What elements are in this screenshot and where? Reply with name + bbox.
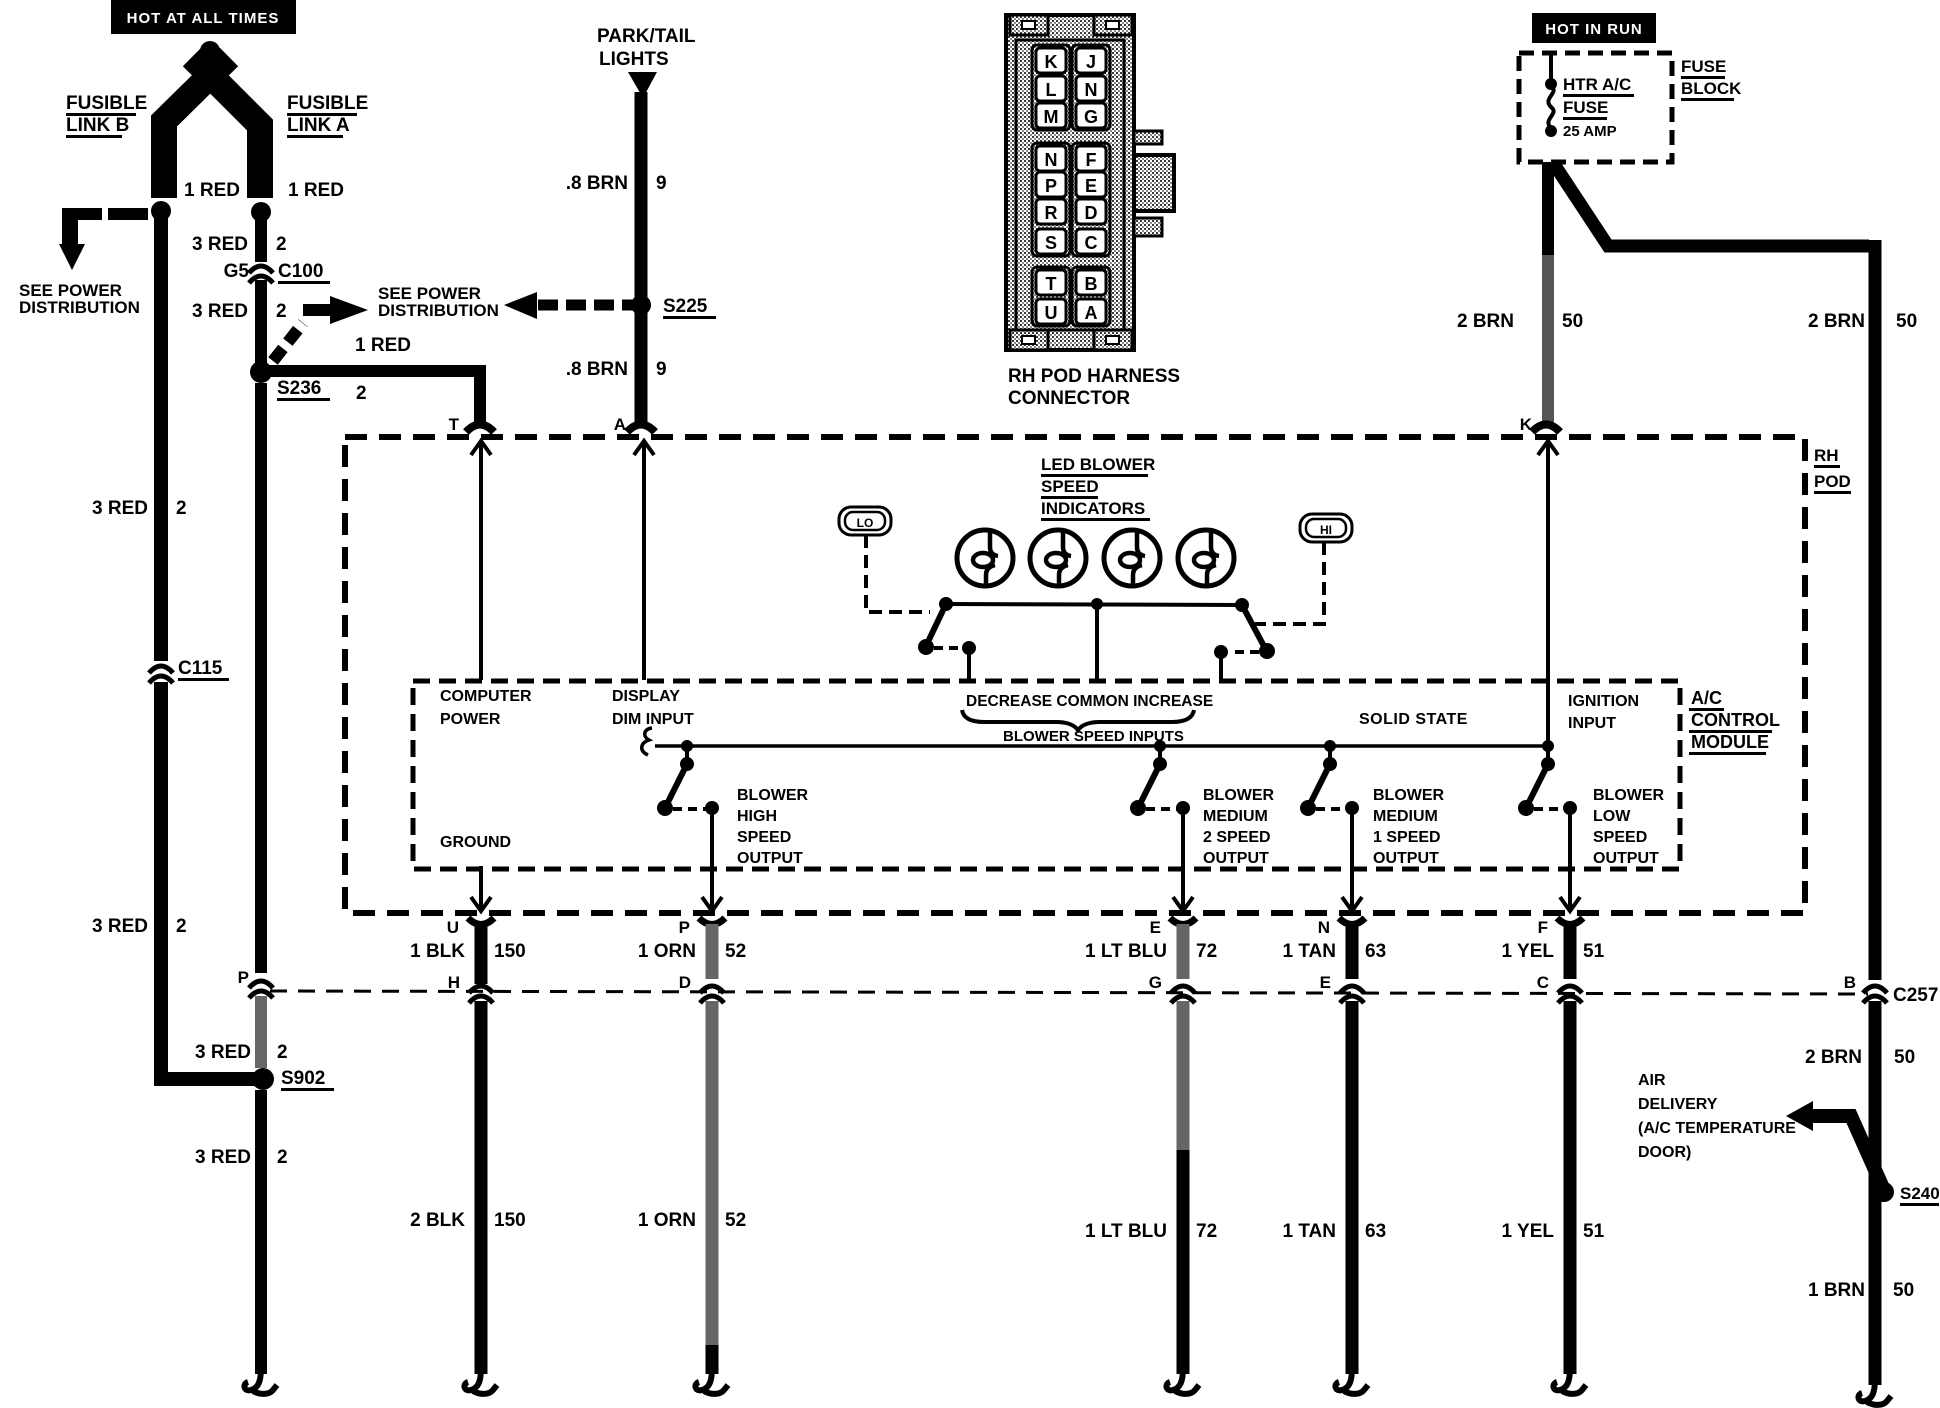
svg-text:S902: S902 — [281, 1068, 325, 1089]
wire label 1 TAN 63 (lower) — [1283, 1221, 1387, 1242]
HI button — [1300, 514, 1352, 542]
svg-text:FUSE: FUSE — [1563, 98, 1608, 117]
wire label 1 ORN 52 — [638, 941, 746, 962]
svg-text:3 RED: 3 RED — [92, 916, 148, 937]
hook end (1 LT BLU wire) — [1166, 1368, 1199, 1394]
svg-text:T: T — [449, 415, 460, 434]
blower low speed switch — [1518, 740, 1577, 816]
svg-text:OUTPUT: OUTPUT — [737, 850, 803, 867]
connector H — [448, 973, 493, 1003]
medium 1 output line — [1342, 808, 1362, 911]
node: hot feed dot — [200, 41, 220, 61]
wire label 1 LT BLU 72 (lower) — [1085, 1221, 1217, 1242]
label PARK/TAIL LIGHTS — [597, 26, 696, 70]
svg-text:1 TAN: 1 TAN — [1283, 1221, 1336, 1242]
svg-text:HIGH: HIGH — [737, 808, 777, 825]
blower medium 1 switch — [1300, 740, 1359, 816]
node: splice dot under link A — [251, 202, 271, 222]
arrow from park/tail lights — [628, 72, 657, 98]
wire: 2 BLK 150 — [475, 1001, 488, 1374]
ground output line — [471, 866, 491, 911]
splice S225 — [631, 295, 716, 319]
svg-text:OUTPUT: OUTPUT — [1203, 850, 1269, 867]
svg-text:.8 BRN: .8 BRN — [566, 359, 628, 380]
wire: corner into S902 — [154, 1072, 262, 1086]
svg-text:POWER: POWER — [440, 711, 501, 728]
svg-text:MEDIUM: MEDIUM — [1203, 808, 1268, 825]
connector C100 / G5 — [224, 261, 330, 284]
low speed output line — [1560, 808, 1580, 911]
svg-text:C: C — [1537, 973, 1549, 992]
svg-text:G: G — [1084, 107, 1098, 127]
wire label 3 RED 2 (gray section) — [195, 1042, 288, 1063]
label RH POD — [1814, 446, 1851, 494]
svg-text:G: G — [1149, 973, 1162, 992]
wire label 1 BLK 150 — [410, 941, 526, 962]
svg-text:GROUND: GROUND — [440, 834, 511, 851]
label SEE POWER DISTRIBUTION (right) — [378, 284, 499, 320]
connector C (C257) — [1537, 973, 1582, 1003]
wire label 1 BRN 50 — [1808, 1280, 1914, 1301]
wire label .8 BRN 9 (lower) — [566, 359, 667, 380]
fusible link B (left leg) — [164, 57, 229, 198]
wire label 1 ORN 52 (lower) — [638, 1210, 746, 1231]
connector D — [679, 973, 724, 1003]
high speed output line — [702, 808, 722, 911]
svg-text:AIR: AIR — [1638, 1072, 1666, 1089]
label SOLID STATE — [1359, 711, 1468, 728]
svg-text:BLOWER: BLOWER — [1203, 787, 1275, 804]
medium 2 output line — [1173, 808, 1193, 911]
label BLOWER SPEED INPUTS — [1003, 728, 1184, 745]
svg-text:C: C — [1085, 233, 1098, 253]
svg-text:K: K — [1520, 415, 1533, 434]
svg-text:A/C: A/C — [1691, 688, 1722, 708]
svg-text:2: 2 — [276, 301, 287, 322]
svg-text:2: 2 — [276, 234, 287, 255]
wire label 2 BRN 50 (right branch) — [1808, 311, 1917, 332]
wire: 3 RED gray section P to S902 — [255, 996, 267, 1068]
svg-text:D: D — [679, 973, 691, 992]
svg-text:2: 2 — [356, 383, 367, 404]
svg-text:HOT IN RUN: HOT IN RUN — [1545, 21, 1643, 38]
dashed branch to see-power-distribution (right) — [273, 310, 331, 361]
svg-text:P: P — [1045, 176, 1057, 196]
svg-text:L: L — [1046, 80, 1057, 100]
wire label 2 BLK 150 — [410, 1210, 526, 1231]
svg-text:1 RED: 1 RED — [355, 335, 411, 356]
svg-text:BLOWER: BLOWER — [737, 787, 809, 804]
svg-text:RH POD HARNESS: RH POD HARNESS — [1008, 366, 1180, 387]
svg-text:FUSE: FUSE — [1681, 57, 1726, 76]
arrow down (see power distribution left) — [59, 244, 85, 270]
svg-text:1 ORN: 1 ORN — [638, 941, 696, 962]
svg-text:1 YEL: 1 YEL — [1502, 941, 1555, 962]
label FUSIBLE LINK A — [287, 93, 368, 138]
svg-text:52: 52 — [725, 1210, 746, 1231]
svg-text:3 RED: 3 RED — [92, 498, 148, 519]
decrease switch (by LO) — [918, 604, 976, 681]
svg-text:E: E — [1150, 918, 1161, 937]
svg-text:S236: S236 — [277, 378, 321, 399]
common line down — [1095, 604, 1099, 681]
splice S240 — [1874, 1182, 1940, 1206]
svg-text:G5: G5 — [224, 261, 250, 282]
svg-text:U: U — [1045, 303, 1058, 323]
svg-text:51: 51 — [1583, 1221, 1605, 1242]
increase switch (by HI) — [1214, 605, 1275, 681]
svg-text:1 BLK: 1 BLK — [410, 941, 465, 962]
blower speed input bus — [655, 744, 1550, 748]
svg-text:D: D — [1085, 203, 1098, 223]
svg-text:S240: S240 — [1900, 1184, 1940, 1203]
wire: 1 BLK 150 — [475, 924, 488, 984]
wire label 3 RED 2 (right, above C100) — [192, 234, 287, 255]
label BLOWER MEDIUM 1 SPEED OUTPUT — [1373, 787, 1445, 867]
label BLOWER MEDIUM 2 SPEED OUTPUT — [1203, 787, 1275, 867]
svg-text:1 SPEED: 1 SPEED — [1373, 829, 1441, 846]
svg-text:POD: POD — [1814, 472, 1851, 491]
fusible link A (right leg) — [192, 57, 260, 198]
power label: HOT AT ALL TIMES box — [111, 0, 296, 34]
wire: 3 RED below S902 — [255, 1090, 267, 1374]
connector B (C257) — [1844, 973, 1887, 1003]
brace under decrease/common/increase — [962, 710, 1194, 730]
wire: 1 LT BLU 72 (gray) — [1177, 924, 1190, 979]
splice S236 — [250, 361, 330, 401]
arrow right (see power distribution right) — [330, 296, 368, 324]
svg-text:C100: C100 — [278, 261, 323, 282]
label BLOWER LOW SPEED OUTPUT — [1593, 787, 1665, 867]
svg-text:S: S — [1045, 233, 1057, 253]
svg-text:S225: S225 — [663, 296, 708, 317]
svg-text:1 ORN: 1 ORN — [638, 1210, 696, 1231]
svg-text:DISPLAY: DISPLAY — [612, 688, 680, 705]
svg-text:N: N — [1085, 80, 1098, 100]
svg-text:P: P — [238, 968, 249, 987]
wire: 1 YEL 51 — [1564, 924, 1577, 979]
svg-text:52: 52 — [725, 941, 746, 962]
svg-text:P: P — [679, 918, 690, 937]
LED indicator 4 — [1178, 530, 1234, 586]
svg-text:DOOR): DOOR) — [1638, 1144, 1691, 1161]
svg-text:T: T — [1046, 274, 1057, 294]
wire label .8 BRN 9 (upper) — [566, 173, 667, 194]
label COMPUTER POWER — [440, 688, 532, 728]
label IGNITION INPUT — [1568, 693, 1639, 732]
wire: .8 BRN down to A — [635, 305, 648, 424]
svg-text:1 TAN: 1 TAN — [1283, 941, 1336, 962]
label RH POD HARNESS CONNECTOR — [1008, 366, 1180, 409]
svg-text:N: N — [1318, 918, 1330, 937]
connector N (RH pod bottom) — [1318, 918, 1365, 937]
svg-text:DISTRIBUTION: DISTRIBUTION — [19, 298, 140, 317]
svg-text:LED BLOWER: LED BLOWER — [1041, 455, 1155, 474]
wire: 1 RED horizontal to T — [261, 365, 486, 424]
connector F (RH pod bottom) — [1538, 918, 1583, 937]
label DISPLAY DIM INPUT — [612, 688, 694, 728]
svg-text:2 SPEED: 2 SPEED — [1203, 829, 1271, 846]
svg-text:PARK/TAIL: PARK/TAIL — [597, 26, 696, 47]
svg-text:C115: C115 — [178, 658, 223, 679]
wire: 2 BRN branch right — [1554, 164, 1882, 980]
svg-text:9: 9 — [656, 173, 667, 194]
connector U (RH pod bottom) — [447, 918, 494, 937]
svg-text:3 RED: 3 RED — [195, 1147, 251, 1168]
air delivery branch arrow — [1786, 1101, 1884, 1190]
svg-text:M: M — [1044, 107, 1059, 127]
svg-text:LINK A: LINK A — [287, 115, 350, 136]
svg-text:B: B — [1085, 274, 1098, 294]
dashed wire from HI — [1255, 542, 1324, 624]
svg-text:SPEED: SPEED — [1593, 829, 1647, 846]
label AIR DELIVERY (A/C TEMPERATURE DOOR) — [1638, 1072, 1796, 1161]
label FUSIBLE LINK B — [66, 93, 147, 138]
svg-text:K: K — [1045, 52, 1058, 72]
svg-text:LINK B: LINK B — [66, 115, 129, 136]
svg-text:3 RED: 3 RED — [195, 1042, 251, 1063]
wire label 2 BRN 50 (left branch) — [1457, 311, 1583, 332]
wire: 1 TAN lower — [1346, 1001, 1359, 1374]
wire: 2 BRN fuse to K — [1542, 162, 1554, 424]
svg-text:2 BRN: 2 BRN — [1805, 1047, 1862, 1068]
blower high speed switch — [657, 740, 719, 816]
svg-text:LOW: LOW — [1593, 808, 1631, 825]
hook end (1 YEL wire) — [1553, 1368, 1586, 1394]
svg-text:150: 150 — [494, 941, 526, 962]
svg-text:.8 BRN: .8 BRN — [566, 173, 628, 194]
RH POD module dashed box — [345, 437, 1805, 913]
wire label 2 (horizontal) — [356, 383, 367, 404]
wire: .8 BRN down to S225 — [635, 92, 648, 305]
indicator common bus — [939, 597, 1249, 612]
svg-text:SPEED: SPEED — [737, 829, 791, 846]
svg-text:J: J — [1086, 52, 1096, 72]
svg-text:1 LT BLU: 1 LT BLU — [1085, 1221, 1167, 1242]
svg-text:(A/C TEMPERATURE: (A/C TEMPERATURE — [1638, 1120, 1796, 1137]
svg-text:N: N — [1045, 150, 1058, 170]
svg-text:HOT AT ALL TIMES: HOT AT ALL TIMES — [127, 10, 280, 27]
connector P (into C257) — [238, 968, 273, 998]
svg-text:RH: RH — [1814, 446, 1839, 465]
svg-text:72: 72 — [1196, 941, 1217, 962]
svg-text:3 RED: 3 RED — [192, 234, 248, 255]
svg-text:MODULE: MODULE — [1691, 732, 1769, 752]
hook end (1 BRN wire) — [1858, 1379, 1891, 1405]
wire: 1 YEL lower — [1564, 1001, 1577, 1374]
svg-text:INDICATORS: INDICATORS — [1041, 499, 1145, 518]
svg-text:25 AMP: 25 AMP — [1563, 123, 1617, 140]
svg-text:BLOWER: BLOWER — [1593, 787, 1665, 804]
svg-text:9: 9 — [656, 359, 667, 380]
svg-text:2: 2 — [277, 1147, 288, 1168]
wire label 1 RED (link A) — [288, 180, 344, 201]
svg-text:50: 50 — [1893, 1280, 1914, 1301]
power label: HOT IN RUN box — [1532, 13, 1656, 43]
svg-text:SOLID STATE: SOLID STATE — [1359, 711, 1468, 728]
fuse block dashed box — [1519, 53, 1672, 162]
svg-text:COMPUTER: COMPUTER — [440, 688, 532, 705]
wire label 1 YEL 51 — [1502, 941, 1605, 962]
svg-text:U: U — [447, 918, 459, 937]
svg-text:SPEED: SPEED — [1041, 477, 1099, 496]
svg-text:FUSIBLE: FUSIBLE — [66, 93, 147, 114]
wire label 1 LT BLU 72 — [1085, 941, 1217, 962]
wire: 3 RED 2 left vertical run — [154, 211, 168, 1079]
display dim hook — [642, 728, 652, 755]
LED indicator 3 — [1104, 530, 1160, 586]
svg-text:HI: HI — [1320, 523, 1332, 537]
wire: dashed branch to see-power-distribution (left) — [62, 208, 152, 246]
svg-text:DIM INPUT: DIM INPUT — [612, 711, 694, 728]
label SEE POWER DISTRIBUTION (left) — [19, 281, 140, 317]
wire label 3 RED 2 (right, below C100) — [192, 301, 287, 322]
connector K — [1520, 415, 1560, 746]
connector P (RH pod bottom) — [679, 918, 725, 937]
svg-text:DELIVERY: DELIVERY — [1638, 1096, 1718, 1113]
connector line C257 — [270, 985, 1938, 1006]
svg-text:72: 72 — [1196, 1221, 1217, 1242]
svg-text:2 BRN: 2 BRN — [1808, 311, 1865, 332]
svg-text:DECREASE COMMON INCREASE: DECREASE COMMON INCREASE — [966, 693, 1213, 710]
svg-text:C257: C257 — [1893, 985, 1938, 1006]
wire label 3 RED 2 (bottom left) — [195, 1147, 288, 1168]
label BLOWER HIGH SPEED OUTPUT — [737, 787, 809, 867]
wire: 1 ORN lower (gray) — [706, 1001, 719, 1374]
svg-text:63: 63 — [1365, 941, 1386, 962]
dashed arrow left at S225 — [504, 292, 634, 319]
hook end (1 TAN wire) — [1335, 1368, 1368, 1394]
LED indicator 2 — [1030, 530, 1086, 586]
svg-text:DISTRIBUTION: DISTRIBUTION — [378, 301, 499, 320]
wire: 3 RED right vertical (link A) upper — [255, 212, 267, 262]
connector E (RH pod bottom) — [1150, 918, 1196, 937]
wire: 1 LT BLU lower — [1177, 1001, 1190, 1374]
RH pod harness connector body — [1006, 15, 1174, 350]
connector C115 — [149, 658, 229, 683]
svg-text:F: F — [1086, 150, 1097, 170]
hook end (1 ORN wire) — [695, 1368, 728, 1394]
svg-text:2: 2 — [277, 1042, 288, 1063]
svg-text:HTR A/C: HTR A/C — [1563, 75, 1631, 94]
svg-text:1 YEL: 1 YEL — [1502, 1221, 1555, 1242]
svg-text:BLOCK: BLOCK — [1681, 79, 1742, 98]
svg-text:1 RED: 1 RED — [184, 180, 240, 201]
svg-text:63: 63 — [1365, 1221, 1386, 1242]
svg-text:3 RED: 3 RED — [192, 301, 248, 322]
connector T — [449, 415, 494, 680]
connector G — [1149, 973, 1195, 1003]
svg-text:2 BRN: 2 BRN — [1457, 311, 1514, 332]
svg-text:R: R — [1045, 203, 1058, 223]
wire label 3 RED 2 (upper left) — [92, 498, 187, 519]
svg-text:E: E — [1320, 973, 1331, 992]
svg-text:50: 50 — [1894, 1047, 1915, 1068]
svg-text:OUTPUT: OUTPUT — [1373, 850, 1439, 867]
svg-text:B: B — [1844, 973, 1856, 992]
label A/C CONTROL MODULE — [1689, 688, 1780, 755]
label FUSE BLOCK — [1681, 57, 1742, 101]
svg-text:51: 51 — [1583, 941, 1605, 962]
wire label 1 YEL 51 (lower) — [1502, 1221, 1605, 1242]
svg-text:INPUT: INPUT — [1568, 715, 1616, 732]
wire label 1 TAN 63 — [1283, 941, 1387, 962]
svg-text:BLOWER: BLOWER — [1373, 787, 1445, 804]
svg-text:MEDIUM: MEDIUM — [1373, 808, 1438, 825]
svg-text:1 RED: 1 RED — [288, 180, 344, 201]
svg-text:1 BRN: 1 BRN — [1808, 1280, 1865, 1301]
wire: 2 BRN below B — [1869, 1001, 1882, 1202]
label LED BLOWER SPEED INDICATORS — [1041, 455, 1155, 521]
node: splice dot under link B — [151, 201, 171, 221]
hook end (3 RED wire) — [244, 1368, 277, 1394]
svg-text:CONNECTOR: CONNECTOR — [1008, 388, 1130, 409]
svg-text:E: E — [1085, 176, 1097, 196]
svg-text:A: A — [1085, 303, 1098, 323]
svg-text:50: 50 — [1562, 311, 1583, 332]
connector A — [614, 415, 655, 680]
splice S902 — [252, 1068, 334, 1091]
wire label 1 RED (link B) — [184, 180, 240, 201]
svg-text:IGNITION: IGNITION — [1568, 693, 1639, 710]
svg-text:CONTROL: CONTROL — [1691, 710, 1780, 730]
wire: 1 BRN 50 — [1869, 1202, 1882, 1385]
svg-text:F: F — [1538, 918, 1548, 937]
dashed wire from LO — [866, 535, 930, 612]
svg-text:LIGHTS: LIGHTS — [599, 49, 669, 70]
wire: 1 ORN 52 (gray) — [706, 924, 719, 979]
svg-text:LO: LO — [857, 516, 874, 530]
label DECREASE COMMON INCREASE — [966, 693, 1213, 710]
wire label 2 BRN 50 (below B) — [1805, 1047, 1915, 1068]
svg-text:2 BLK: 2 BLK — [410, 1210, 465, 1231]
svg-text:A: A — [614, 415, 626, 434]
svg-text:2: 2 — [176, 498, 187, 519]
wire: 1 TAN 63 — [1346, 924, 1359, 979]
svg-text:150: 150 — [494, 1210, 526, 1231]
wire: 3 RED down to P connector — [255, 383, 267, 973]
LED indicator 1 — [957, 530, 1013, 586]
connector E (C257) — [1320, 973, 1364, 1003]
svg-text:50: 50 — [1896, 311, 1917, 332]
svg-text:FUSIBLE: FUSIBLE — [287, 93, 368, 114]
LO button — [839, 507, 891, 535]
blower medium 2 switch — [1130, 740, 1190, 816]
hook end (2 BLK wire) — [464, 1368, 497, 1394]
wire label 3 RED 2 (lower left) — [92, 916, 187, 937]
svg-text:1 LT BLU: 1 LT BLU — [1085, 941, 1167, 962]
wire label 1 RED (horizontal) — [355, 335, 411, 356]
wire: 3 RED between C100 and S236 — [255, 280, 267, 372]
fuse HTR A/C 25 AMP — [1545, 53, 1634, 140]
svg-text:OUTPUT: OUTPUT — [1593, 850, 1659, 867]
svg-text:2: 2 — [176, 916, 187, 937]
A/C control module dashed box — [413, 681, 1680, 869]
svg-text:H: H — [448, 973, 460, 992]
label GROUND — [440, 834, 511, 851]
